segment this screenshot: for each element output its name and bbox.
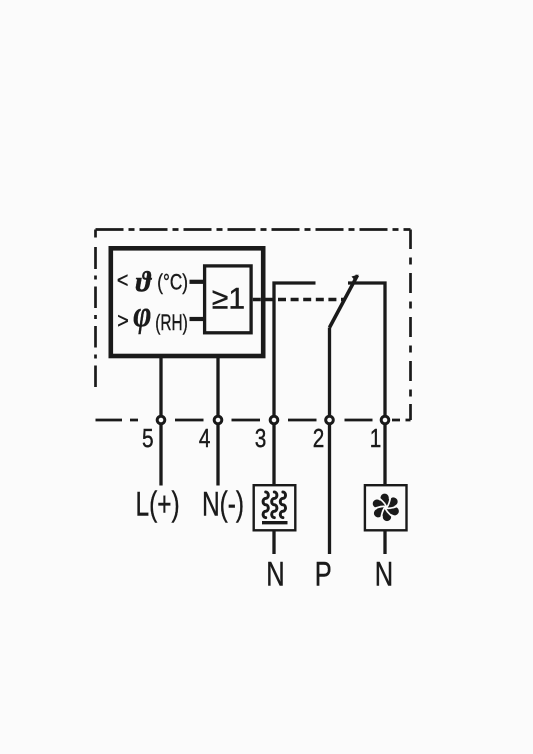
svg-text:N(-): N(-) (202, 486, 244, 524)
svg-text:4: 4 (199, 424, 211, 453)
svg-text:L(+): L(+) (136, 486, 180, 524)
svg-text:ϑ: ϑ (136, 266, 153, 298)
svg-text:≥1: ≥1 (212, 283, 245, 316)
svg-text:N: N (266, 556, 284, 593)
svg-text:5: 5 (142, 424, 154, 453)
svg-text:3: 3 (255, 424, 267, 453)
svg-text:(°C): (°C) (157, 271, 188, 296)
svg-text:P: P (315, 556, 332, 593)
svg-text:(RH): (RH) (155, 312, 187, 336)
svg-text:φ: φ (133, 295, 151, 335)
svg-text:2: 2 (313, 424, 325, 453)
svg-text:1: 1 (370, 424, 382, 453)
svg-text:N: N (375, 556, 393, 593)
svg-text:>: > (117, 309, 129, 333)
svg-text:<: < (117, 269, 129, 293)
